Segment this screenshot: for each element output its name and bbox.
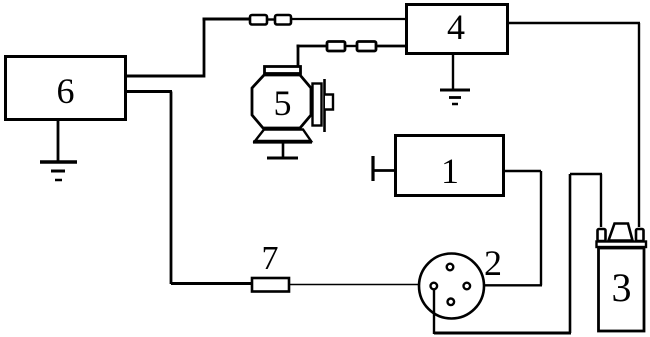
- distributor bottom dot: [448, 299, 455, 306]
- starter motor base line: [253, 140, 312, 143]
- svg-text:7: 7: [262, 240, 279, 277]
- ground below box 6: [40, 121, 77, 180]
- distributor left dot: [431, 283, 438, 290]
- wire corner to fuse F3: [297, 45, 328, 48]
- distributor top dot: [447, 264, 454, 271]
- box1 left stub wire: [373, 169, 396, 172]
- starter motor 5 body octagon: [252, 75, 311, 128]
- svg-text:1: 1: [441, 151, 459, 191]
- battery left terminal: [598, 229, 606, 241]
- wire fuse link 2: [345, 45, 357, 47]
- fuse F2: [275, 15, 291, 25]
- battery top bar: [597, 242, 647, 248]
- wire box1 right stub: [503, 170, 541, 172]
- starter motor right bar: [323, 79, 326, 132]
- fuse F1: [250, 15, 267, 25]
- wire resistor to distributor: [289, 284, 421, 286]
- wire bottom run: [434, 332, 571, 335]
- starter motor stem: [282, 143, 285, 158]
- box 1: [396, 136, 504, 196]
- svg-text:2: 2: [484, 243, 502, 283]
- svg-text:5: 5: [274, 83, 292, 123]
- wire left vertical down: [170, 92, 173, 285]
- fuse F3: [327, 42, 345, 52]
- distributor circle 2: [419, 254, 484, 319]
- starter motor 5 top bar: [265, 67, 301, 74]
- wire down to distributor right: [540, 171, 542, 285]
- battery 3 body: [599, 248, 645, 331]
- wire fuse link: [267, 18, 275, 20]
- starter motor base trapezoid: [255, 130, 311, 142]
- wire from motor top to fuse row 2: [297, 45, 300, 67]
- wire fuses to box 4: [292, 18, 406, 20]
- wire corner up: [203, 19, 206, 78]
- wire fuse F4 to box 4: [376, 45, 406, 48]
- box1 left terminal bar: [371, 156, 374, 181]
- starter motor shaft nub: [325, 95, 333, 110]
- wire up to distributor left dot: [433, 289, 435, 334]
- wire right vertical to battery positive: [638, 23, 640, 227]
- battery right terminal: [636, 229, 644, 241]
- wire bottom run to resistor: [171, 282, 252, 285]
- ground below box 4: [440, 54, 470, 104]
- wire top run to fuse: [203, 18, 250, 21]
- svg-text:6: 6: [57, 71, 75, 111]
- wire box4 to right corner: [507, 22, 640, 24]
- wire left vertical down: [569, 174, 572, 333]
- starter motor foot: [267, 157, 298, 160]
- wire to left vertical: [570, 173, 602, 175]
- wire to distributor right dot: [469, 284, 542, 286]
- box 6: [6, 57, 126, 120]
- wire box6 right to corner: [127, 75, 204, 78]
- battery center cap: [609, 224, 633, 241]
- svg-text:3: 3: [612, 265, 632, 310]
- svg-text:4: 4: [447, 7, 465, 47]
- box 4: [407, 5, 508, 54]
- wire battery negative up: [600, 174, 602, 227]
- resistor R7: [252, 278, 289, 292]
- distributor right dot: [464, 283, 471, 290]
- wire box6 lower right stub: [127, 90, 172, 93]
- starter motor right bracket: [313, 84, 322, 126]
- fuse F4: [357, 42, 376, 52]
